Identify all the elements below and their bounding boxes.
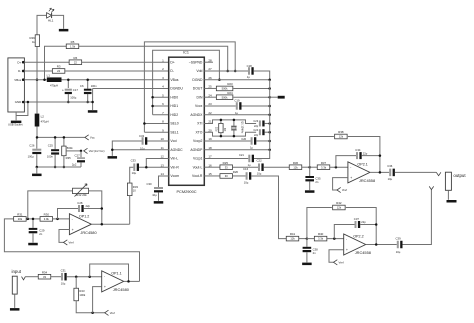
- svg-text:SEL1: SEL1: [170, 130, 178, 134]
- svg-text:500k: 500k: [222, 95, 228, 99]
- wire to HID2: [153, 114, 169, 116]
- svg-text:D+: D+: [17, 60, 21, 64]
- svg-text:AGNDP: AGNDP: [190, 148, 203, 152]
- node X: [27, 218, 30, 221]
- resistor R31: [14, 213, 27, 222]
- wire C22 to R36: [264, 166, 290, 168]
- svg-text:R43: R43: [79, 289, 85, 293]
- ground (digital): [88, 110, 98, 113]
- wire C36 to output jack tip: [395, 171, 436, 173]
- wire USB shield to ground: [15, 112, 17, 120]
- ground (C38): [302, 263, 312, 266]
- wire Vccx pin 23: [204, 105, 236, 107]
- svg-text:100k: 100k: [79, 293, 85, 297]
- svg-text:22: 22: [57, 69, 60, 73]
- junction C25 on Vcc rail: [54, 136, 57, 139]
- junction C17 on GND: [67, 101, 70, 104]
- svg-text:Vout-R: Vout-R: [192, 174, 203, 178]
- resistor R40: [314, 232, 327, 241]
- junction R35 on Vcc rail: [63, 136, 66, 139]
- capacitor C31 10µ: [61, 273, 67, 281]
- svg-text:C28: C28: [77, 201, 83, 205]
- wire feedback: [90, 264, 129, 281]
- svg-text:100µ: 100µ: [70, 96, 76, 100]
- junction R24 on bus: [268, 96, 271, 99]
- svg-text:Vccx: Vccx: [195, 104, 203, 108]
- op IC1 PCM2900C USB codec: [169, 50, 205, 193]
- wire C37 to output: [360, 224, 376, 226]
- svg-text:33: 33: [43, 275, 46, 279]
- inductor L2 470uH: [35, 114, 49, 127]
- wire node Y to C28: [58, 209, 79, 219]
- wire SEL pullup loop to Vdd: [144, 42, 235, 132]
- svg-text:22: 22: [74, 60, 77, 64]
- wire node D to C34: [336, 156, 356, 168]
- svg-text:+: +: [62, 88, 64, 92]
- svg-text:HID1: HID1: [170, 104, 178, 108]
- wire C29 to ground: [32, 233, 34, 242]
- supply symbol Vref (OP2.1): [337, 187, 347, 192]
- svg-text:C20: C20: [241, 137, 246, 141]
- svg-text:R36: R36: [293, 161, 299, 165]
- junction C37 on output: [375, 223, 378, 226]
- wire Vref tap: [66, 150, 81, 152]
- svg-text:22p: 22p: [254, 134, 259, 137]
- ground (Vcc filter): [32, 174, 42, 177]
- wire C32 to ground: [112, 141, 141, 156]
- wire VBus to C6: [87, 80, 89, 89]
- svg-text:R35: R35: [66, 156, 72, 160]
- svg-text:R23: R23: [227, 82, 233, 86]
- wire LED anode to R29: [37, 15, 47, 34]
- svg-text:R24: R24: [227, 91, 233, 95]
- junction feedback on output: [379, 171, 382, 174]
- resistor R23: [216, 82, 233, 91]
- junction C24 on bus: [268, 131, 271, 134]
- svg-text:DGNDU: DGNDU: [170, 87, 183, 91]
- svg-text:VBus: VBus: [14, 78, 21, 82]
- svg-text:input: input: [12, 269, 22, 274]
- wire XTI pin 21 via top rail: [204, 120, 256, 124]
- svg-text:Vout-L: Vout-L: [193, 165, 203, 169]
- svg-text:JRC4558: JRC4558: [355, 250, 371, 255]
- inductor L1 470uH: [47, 74, 62, 88]
- svg-text:DIN: DIN: [197, 95, 203, 99]
- svg-text:Vcom: Vcom: [170, 174, 179, 178]
- wire VBus to C17: [67, 80, 69, 88]
- capacitor C17 100µ: [65, 89, 72, 94]
- wire non-inv to Vref: [329, 250, 344, 263]
- resistor R6: [69, 56, 82, 65]
- svg-text:+: +: [104, 285, 106, 289]
- wire output jack sleeve to ground: [447, 190, 449, 200]
- wire C18 to ground bus: [254, 71, 270, 80]
- junction AGNDC: [111, 148, 114, 151]
- svg-text:C21: C21: [239, 153, 244, 157]
- wire to ground bar: [36, 167, 38, 173]
- node A: [308, 166, 311, 169]
- wire R26 to C16: [233, 175, 246, 177]
- svg-text:Vref: Vref: [69, 241, 74, 245]
- wire non-inv to Vref: [59, 229, 69, 242]
- wire R35 to gnd rail: [63, 156, 65, 167]
- wire R30 to op-amp: [53, 218, 70, 220]
- svg-text:C6: C6: [80, 84, 84, 88]
- analog ground rail: [37, 166, 81, 168]
- svg-text:C16: C16: [243, 167, 249, 171]
- capacitor C25 100n: [51, 149, 59, 154]
- capacitor C26 100µ: [32, 149, 41, 154]
- wire C24 to bus: [265, 131, 270, 133]
- junction R35 on gnd rail: [63, 166, 66, 169]
- svg-text:JRC4558: JRC4558: [359, 178, 375, 183]
- wire C21 to bus: [254, 150, 270, 159]
- wire op-amp output: [366, 244, 397, 246]
- capacitor C38 2n: [303, 247, 312, 252]
- svg-text:OP1.2: OP1.2: [79, 214, 89, 218]
- wire Vccp1 pin 17: [204, 157, 248, 159]
- svg-text:22p: 22p: [361, 220, 366, 224]
- junction feedback on output: [127, 280, 130, 283]
- junction non-inv on Vref rail: [91, 312, 94, 315]
- crystal Q1 12MHz: [231, 121, 243, 134]
- svg-text:D-: D-: [18, 69, 21, 73]
- wire R29 to VBus and L2: [36, 46, 38, 113]
- junction C25 on gnd rail: [54, 166, 57, 169]
- svg-text:R3: R3: [57, 65, 61, 69]
- svg-text:22p: 22p: [363, 151, 368, 155]
- junction SEL0: [143, 122, 146, 125]
- svg-text:C30: C30: [146, 182, 152, 186]
- junction Vin: [145, 166, 148, 169]
- svg-text:1µ: 1µ: [247, 75, 250, 79]
- junction C17 on VBus: [67, 78, 70, 81]
- ground (input jack): [10, 308, 20, 311]
- wire Vout-R pin 15: [204, 175, 220, 177]
- svg-text:output: output: [453, 173, 466, 178]
- junction Q1 on rail: [233, 119, 236, 122]
- svg-text:OP1.1: OP1.1: [111, 272, 121, 276]
- svg-text:IC1: IC1: [183, 50, 189, 54]
- capacitor C24 22p: [259, 129, 265, 135]
- svg-text:USB Socket: USB Socket: [8, 123, 23, 127]
- svg-text:R34: R34: [42, 270, 48, 274]
- svg-text:10µ: 10µ: [244, 180, 249, 184]
- wire R22 to rail: [220, 133, 222, 136]
- svg-text:C33: C33: [131, 159, 137, 163]
- svg-text:C29: C29: [39, 228, 45, 232]
- op-amp OP2.2 JRC4558: [344, 234, 371, 255]
- svg-text:R6: R6: [74, 56, 78, 60]
- svg-text:R31: R31: [17, 213, 23, 217]
- wire C39 to output jack ring: [403, 190, 432, 245]
- wire C25 to gnd rail: [54, 155, 56, 167]
- wire node C to C37: [334, 225, 354, 239]
- wire node A to R37: [310, 166, 324, 168]
- junction feedback on output: [375, 243, 378, 246]
- junction Q1 on rail: [233, 135, 236, 138]
- ground (right bus): [278, 96, 285, 99]
- node Y: [56, 218, 59, 221]
- wire R33 to OP1.2 output: [129, 196, 131, 225]
- wire XTO pin 20 via bottom rail: [204, 132, 256, 136]
- junction R23 on bus: [268, 87, 271, 90]
- wire Vcc rail to R35: [63, 137, 65, 146]
- resistor R34: [38, 270, 51, 279]
- resistor R22 1M (crystal bias): [216, 124, 228, 133]
- wire node B to R40: [307, 238, 321, 240]
- wire Vcc(filtered VBus) to IC pin 3: [62, 79, 169, 81]
- junction C23 on bus: [268, 122, 271, 125]
- svg-text:Vin-R: Vin-R: [170, 165, 179, 169]
- node D: [335, 166, 338, 169]
- wire DIN pin 24: [204, 96, 216, 98]
- junction Vref node: [80, 150, 83, 153]
- wire Vcci pin 10: [146, 140, 168, 142]
- wire node A to R38 feedback: [310, 137, 334, 168]
- wire Vref to C27: [80, 151, 82, 157]
- wire C33 to R33: [130, 167, 134, 183]
- svg-text:GND: GND: [15, 100, 21, 104]
- svg-text:3.9k: 3.9k: [44, 217, 50, 221]
- capacitor C22 10µ: [258, 163, 264, 171]
- wire DOUT pin 25: [204, 87, 216, 89]
- svg-text:C34: C34: [355, 148, 361, 152]
- wire R38 to output: [348, 137, 380, 173]
- junction HID loop on DGND: [218, 78, 221, 81]
- svg-text:PCM2900C: PCM2900C: [176, 189, 196, 194]
- input jack J2: [12, 276, 25, 294]
- svg-text:OP2.1: OP2.1: [357, 163, 367, 167]
- node C: [333, 237, 336, 240]
- svg-text:XTO: XTO: [195, 130, 202, 134]
- svg-text:2n: 2n: [39, 232, 42, 236]
- node B: [306, 237, 309, 240]
- wire rail to Q1: [233, 120, 235, 126]
- resistor R33: [127, 183, 132, 196]
- svg-text:Vref (1/2 Vcc): Vref (1/2 Vcc): [89, 149, 105, 153]
- wire rail to R22: [220, 120, 222, 124]
- svg-text:R42: R42: [336, 201, 342, 205]
- wire C17 to GND row: [67, 94, 69, 102]
- wire C6 to GND row: [87, 94, 89, 102]
- svg-text:1µ: 1µ: [250, 146, 253, 150]
- wire AGNDX pin 22: [204, 114, 269, 116]
- resistor R36: [289, 161, 302, 170]
- wire GND from USB: [24, 101, 92, 103]
- svg-text:R25: R25: [223, 161, 229, 165]
- junction R5 on VBus: [43, 78, 46, 81]
- stub pin 28 ~SSPND: [204, 61, 213, 63]
- wire R34 to C31: [51, 276, 61, 278]
- svg-text:10: 10: [133, 188, 136, 192]
- capacitor C33 10µ: [133, 163, 139, 171]
- svg-text:12k: 12k: [337, 206, 342, 210]
- op-amp OP1.1 JRC4580: [102, 271, 130, 292]
- wire GND branch to shield ground: [16, 102, 28, 116]
- svg-text:XTI: XTI: [197, 122, 202, 126]
- svg-text:20k: 20k: [18, 217, 23, 221]
- resistor R43: [74, 288, 79, 301]
- svg-text:100µ: 100µ: [28, 155, 34, 159]
- wire C23 to bus: [265, 122, 270, 124]
- wire C35 to ground: [309, 181, 311, 190]
- svg-text:Vref: Vref: [339, 261, 344, 265]
- resistor R25: [220, 161, 233, 170]
- svg-text:R40: R40: [318, 232, 324, 236]
- wire C28 to output: [84, 208, 102, 210]
- wire node B to R42 feedback: [307, 208, 332, 239]
- svg-text:1M: 1M: [224, 128, 227, 131]
- svg-text:3.3k: 3.3k: [318, 237, 324, 241]
- wire Vdd pin 27: [204, 70, 248, 72]
- svg-text:22p: 22p: [254, 125, 259, 128]
- capacitor C37 22p: [355, 221, 361, 228]
- wire D+ from USB: [24, 61, 69, 63]
- wire C38 to ground: [306, 252, 308, 262]
- svg-text:SEL0: SEL0: [170, 122, 178, 126]
- capacitor C18 1µ: [248, 67, 254, 75]
- resistor R29: [35, 35, 39, 47]
- junction C29 at node X: [32, 218, 35, 221]
- svg-text:+: +: [72, 228, 74, 232]
- resistor R38: [335, 130, 348, 139]
- supply symbol Vcc: [85, 135, 95, 140]
- wire D+ to IC pin 1: [82, 61, 169, 63]
- wire R43 to Vref rail: [76, 301, 105, 313]
- wire DGND pin 26: [204, 79, 269, 81]
- junction feedback: [88, 275, 91, 278]
- capacitor C21 1µ: [248, 155, 254, 163]
- svg-text:100n: 100n: [47, 154, 53, 158]
- svg-text:C37: C37: [354, 217, 360, 221]
- wire VBus to R5: [45, 46, 67, 79]
- svg-text:C17: C17: [73, 88, 79, 92]
- svg-text:12k: 12k: [290, 237, 295, 241]
- wire R41 to node B: [299, 238, 307, 240]
- op-amp OP2.1 JRC4558: [348, 162, 375, 183]
- svg-text:C31: C31: [61, 269, 67, 273]
- trimmer R32 20k: [73, 184, 89, 197]
- wire Vin-L to Vin-R: [146, 158, 168, 167]
- svg-text:Vref: Vref: [110, 311, 115, 315]
- junction HID0: [151, 96, 154, 99]
- junction R22 on rail: [220, 119, 223, 122]
- svg-text:C25: C25: [48, 144, 54, 148]
- wire op-amp output: [370, 171, 389, 173]
- wire C30 to ground: [158, 192, 160, 201]
- capacitor C27 2µ2: [72, 154, 85, 167]
- svg-text:R22: R22: [216, 126, 219, 131]
- svg-text:2n: 2n: [315, 180, 318, 184]
- output jack J3: [429, 172, 451, 190]
- svg-text:33: 33: [225, 174, 228, 178]
- junction C28 on output: [101, 207, 104, 210]
- wire to HID1: [153, 105, 169, 107]
- junction feedback on output: [101, 223, 104, 226]
- junction AGNDP on bus: [268, 148, 271, 151]
- svg-text:12k: 12k: [339, 135, 344, 139]
- svg-text:DOUT: DOUT: [193, 87, 203, 91]
- wire C31 to op-amp: [67, 276, 102, 278]
- svg-text:D+: D+: [170, 60, 174, 64]
- junction DGND on bus: [268, 78, 271, 81]
- wire R24 to bus: [233, 96, 270, 98]
- junction R22 on rail: [220, 135, 223, 138]
- supply symbol Vref (OP1.2): [64, 240, 74, 245]
- svg-text:JRC4580: JRC4580: [113, 287, 130, 292]
- junction R5 on Vdd: [226, 70, 229, 73]
- wire R40 to op-amp: [327, 238, 344, 240]
- wire L2 to Vcc rail: [37, 127, 85, 138]
- svg-text:VBus: VBus: [170, 78, 178, 82]
- wire from OP1.1 output to R31: [4, 219, 139, 282]
- svg-text:Vccp1: Vccp1: [193, 157, 203, 161]
- wire non-inv to Vref: [333, 178, 348, 190]
- capacitor C19 1µ: [236, 102, 242, 110]
- wire R36 to node A: [302, 166, 310, 168]
- capacitor C20 1µ: [251, 137, 257, 145]
- wire C27 to gnd rail: [80, 162, 82, 167]
- junction signal node: [75, 275, 78, 278]
- ground (C35): [305, 190, 315, 193]
- wire LED cathode to ground: [52, 15, 64, 28]
- svg-text:R32 20k: R32 20k: [76, 193, 87, 197]
- USB socket J1: [8, 58, 25, 112]
- wire node A to C35: [309, 167, 311, 176]
- svg-text:Vccp2: Vccp2: [193, 139, 203, 143]
- capacitor C35 2n: [305, 176, 314, 181]
- wire node B to C38: [306, 239, 308, 247]
- wire C34 to output: [362, 155, 380, 157]
- svg-text:Vin-L: Vin-L: [170, 157, 178, 161]
- resistor R41: [286, 232, 299, 241]
- svg-text:Vcc: Vcc: [90, 136, 95, 140]
- svg-text:Vcci: Vcci: [170, 139, 177, 143]
- wire Vcc rail to C25: [54, 137, 56, 149]
- svg-text:C32: C32: [139, 134, 145, 138]
- wire to HID0: [153, 96, 169, 98]
- wire AGNDC pin 11: [112, 149, 168, 151]
- junction HID1: [151, 105, 154, 108]
- svg-text:JRC4580: JRC4580: [80, 230, 97, 235]
- svg-text:3.3k: 3.3k: [321, 165, 327, 169]
- wire to SEL0: [144, 122, 168, 124]
- svg-text:C19: C19: [234, 99, 240, 103]
- capacitor C39 10µ: [397, 241, 403, 249]
- wire DGNDU from IC pin 4: [93, 87, 169, 89]
- junction DGNDU/GND: [91, 101, 94, 104]
- wire R37 to op-amp: [330, 166, 348, 168]
- svg-text:+: +: [350, 176, 352, 180]
- junction C20 on bus: [268, 140, 271, 143]
- svg-text:~SSPND: ~SSPND: [189, 60, 203, 64]
- svg-text:Vref: Vref: [342, 188, 347, 192]
- wire jack tip to R34: [25, 276, 38, 278]
- supply symbol Vref source: [84, 148, 105, 153]
- svg-text:10µ: 10µ: [132, 171, 137, 175]
- junction GND branch: [27, 101, 30, 104]
- wire non-inv to Vref rail: [93, 287, 102, 313]
- supply symbol Vref (OP1.1): [105, 310, 115, 315]
- wire C26 to gnd rail: [36, 154, 38, 167]
- junction L2/C26 on Vcc rail: [36, 136, 39, 139]
- wire Vcom pin 14: [159, 176, 169, 187]
- svg-text:HID2: HID2: [170, 113, 178, 117]
- junction C6 on VBus: [86, 78, 89, 81]
- capacitor C34 22p: [356, 152, 362, 159]
- svg-text:2µ2: 2µ2: [72, 163, 77, 167]
